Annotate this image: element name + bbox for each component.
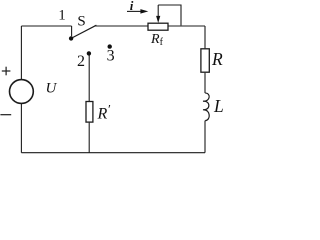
svg-text:U: U: [46, 81, 58, 97]
svg-text:Rf: Rf: [150, 32, 164, 48]
svg-text:2: 2: [77, 53, 85, 70]
svg-text:i: i: [130, 0, 134, 13]
svg-text:R′: R′: [97, 101, 111, 122]
svg-text:L: L: [213, 96, 224, 116]
svg-text:1: 1: [58, 8, 66, 24]
svg-text:S: S: [77, 13, 85, 29]
svg-text:3: 3: [107, 48, 115, 65]
svg-text:R: R: [211, 49, 223, 69]
